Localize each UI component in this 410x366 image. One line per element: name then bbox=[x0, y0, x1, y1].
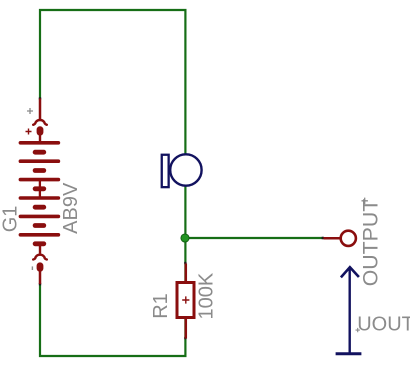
svg-text:AB9V: AB9V bbox=[60, 182, 82, 234]
svg-text:G1: G1 bbox=[0, 206, 22, 233]
svg-text:UOUT: UOUT bbox=[357, 313, 410, 335]
svg-text:R1: R1 bbox=[150, 293, 172, 319]
svg-text:100K: 100K bbox=[195, 272, 217, 319]
svg-text:OUTPUT: OUTPUT bbox=[359, 199, 383, 287]
